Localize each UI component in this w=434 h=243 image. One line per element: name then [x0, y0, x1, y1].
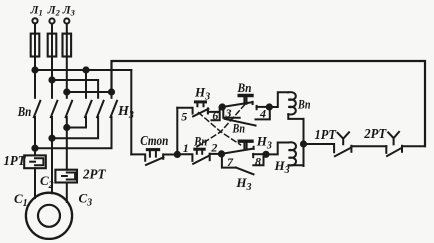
- thermal element 2РТ: [55, 170, 77, 183]
- contactor Вп main contact 3: [66, 101, 73, 117]
- contact 1РТ: [304, 132, 387, 156]
- svg-text:Н3: Н3: [235, 175, 251, 193]
- svg-text:5: 5: [181, 109, 187, 123]
- contactor Н3 stub 1: [85, 70, 87, 98]
- wire phase3 vertical: [66, 57, 68, 98]
- svg-text:2РТ: 2РТ: [363, 126, 387, 141]
- terminal Л1: [32, 18, 37, 33]
- mechanical link dashed 2: [197, 104, 245, 147]
- svg-text:Н3: Н3: [256, 134, 272, 152]
- node swap c1: [32, 146, 37, 151]
- svg-text:С1: С1: [14, 191, 28, 209]
- bus A (phase1): [35, 69, 131, 71]
- node swap c3: [64, 125, 69, 130]
- contactor Н3 main contact 2: [97, 101, 104, 117]
- wire: H3 contact2 to col2: [52, 117, 98, 138]
- svg-text:8: 8: [255, 154, 261, 168]
- wire: riser node1 to upper branch: [176, 108, 178, 155]
- node 1: [175, 152, 180, 157]
- thermal element 1РТ: [24, 155, 46, 168]
- wire phase2 vertical: [51, 57, 53, 98]
- svg-text:1: 1: [183, 141, 189, 155]
- svg-text:Н3: Н3: [194, 85, 210, 103]
- wire: control tap riser + top bus + right rail: [112, 61, 426, 146]
- motor: [26, 193, 72, 239]
- wire col2 lower: [51, 117, 53, 193]
- terminal Л3: [64, 18, 69, 33]
- node 6: [220, 104, 225, 109]
- fuse F2: [48, 34, 57, 57]
- wire col1 lower: [34, 117, 36, 155]
- svg-text:4: 4: [259, 107, 266, 121]
- fuse F3: [63, 34, 72, 57]
- wire col1 to motor: [34, 168, 36, 198]
- svg-text:Вп: Вп: [297, 97, 310, 112]
- contact Вп auxiliary 3-4: [222, 96, 269, 126]
- wire phase1 vertical: [34, 57, 36, 98]
- svg-text:Вп: Вп: [17, 105, 31, 120]
- contactor Н3 stub 3: [111, 92, 113, 98]
- button Н3 (reverse), contact 7-8: [222, 141, 267, 174]
- svg-text:2РТ: 2РТ: [82, 166, 106, 181]
- bus C (phase3): [67, 91, 112, 93]
- svg-text:Л1: Л1: [30, 4, 43, 17]
- svg-text:С3: С3: [79, 191, 93, 209]
- node swap c2: [49, 136, 54, 141]
- coil Вп: [269, 92, 303, 119]
- coil Н3: [266, 142, 304, 165]
- svg-text:1РТ: 1РТ: [315, 127, 337, 142]
- node rail: [301, 141, 306, 146]
- node: bus C / control tap: [109, 89, 114, 94]
- node: bus A / col1: [32, 67, 37, 72]
- node: bus B / col2: [49, 77, 54, 82]
- wire: left rail down to Стоп: [130, 70, 132, 154]
- svg-text:Вп: Вп: [237, 80, 252, 95]
- button Стоп: [131, 150, 177, 165]
- wire: coils common rail: [303, 119, 305, 166]
- contactor Вп main contact 2: [51, 101, 58, 117]
- wire col3 to motor: [66, 183, 68, 203]
- svg-text:2: 2: [210, 141, 217, 155]
- fuse F1: [31, 34, 40, 57]
- contactor Н3 main contact 3: [111, 101, 118, 117]
- svg-text:7: 7: [227, 155, 234, 169]
- node 8: [263, 152, 268, 157]
- node 2: [219, 151, 224, 156]
- terminal Л2: [49, 18, 54, 33]
- contactor Н3 main contact 1: [85, 101, 92, 117]
- wire col3 lower: [66, 117, 68, 170]
- mechanical link dashed 1: [199, 113, 241, 145]
- bus B (phase2): [52, 80, 98, 98]
- svg-text:Л3: Л3: [62, 4, 76, 17]
- node: bus C / col3: [64, 89, 69, 94]
- wire: H3 contact1 to col3 (phase swap): [67, 117, 86, 128]
- svg-text:Н3: Н3: [274, 158, 290, 176]
- svg-text:Стоп: Стоп: [140, 134, 168, 149]
- node: bus A drop: [83, 67, 88, 72]
- node 4: [267, 104, 272, 109]
- svg-text:3: 3: [225, 106, 232, 120]
- contactor Вп main contact 1: [34, 101, 41, 117]
- contact 2РТ: [386, 132, 425, 156]
- svg-text:Вп: Вп: [232, 120, 245, 135]
- svg-text:6: 6: [212, 109, 218, 123]
- wire: H3 contact3 to col1 (phase swap): [35, 117, 112, 148]
- button Н3 NC contact 5-6 (upper branch): [177, 102, 223, 120]
- svg-text:1РТ: 1РТ: [4, 153, 27, 168]
- button Вп (forward), contact 1-2: [177, 149, 221, 164]
- svg-text:Л2: Л2: [47, 4, 61, 17]
